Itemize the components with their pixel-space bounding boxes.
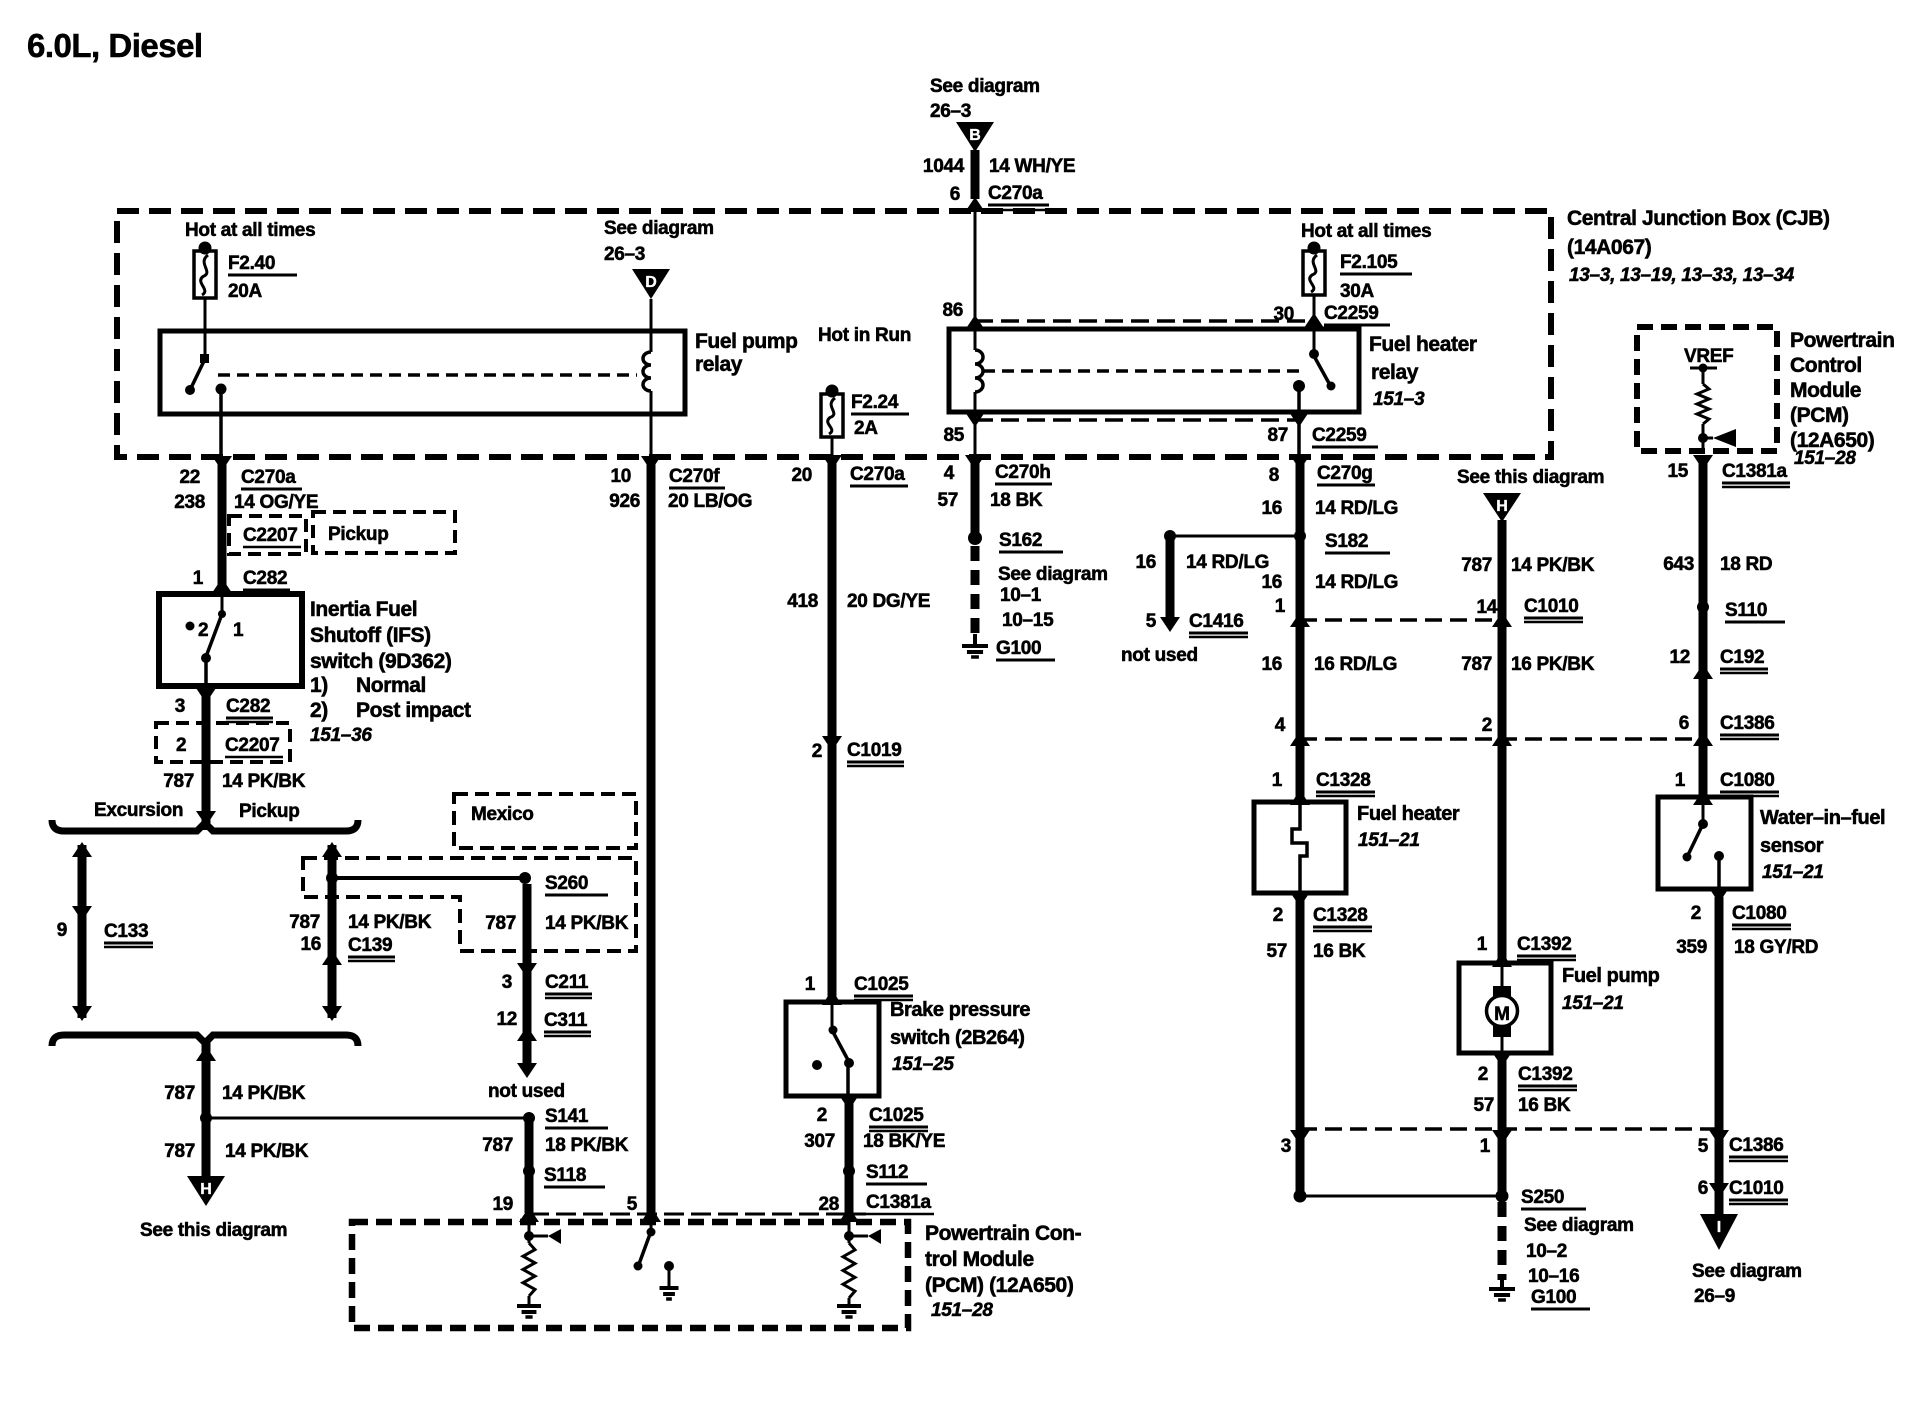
- svg-text:16: 16: [1261, 498, 1282, 519]
- sensor switch pivot: [1698, 819, 1708, 829]
- wire 926 20 LB/OG down to PCM pin 5: [647, 457, 656, 1213]
- svg-text:See diagram: See diagram: [998, 564, 1108, 585]
- svg-text:C270f: C270f: [669, 466, 720, 487]
- svg-text:6: 6: [1698, 1178, 1708, 1199]
- svg-text:20: 20: [791, 465, 812, 486]
- svg-text:1: 1: [1675, 770, 1686, 791]
- wire fuse F2.24 to C270a pin 20: [831, 437, 834, 457]
- svg-text:C1392: C1392: [1518, 1064, 1573, 1085]
- svg-text:C270a: C270a: [988, 183, 1043, 204]
- svg-text:10–15: 10–15: [1002, 610, 1054, 631]
- splice S250: [1496, 1190, 1509, 1203]
- svg-text:C1025: C1025: [854, 974, 909, 995]
- Mexico option dashed boundary (S260 region): [303, 858, 636, 951]
- PCM internal ground (pin 19): [517, 1304, 541, 1308]
- Inertia Fuel Shutoff (IFS) switch box: [159, 594, 302, 686]
- node VREF: [1699, 364, 1708, 373]
- svg-text:2): 2): [310, 699, 328, 722]
- svg-text:F2.40: F2.40: [228, 253, 275, 274]
- svg-text:not used: not used: [1121, 645, 1198, 666]
- split bracket (top) Excursion/Pickup: [52, 820, 358, 831]
- connector C2259 dashed line (lower): [975, 418, 1299, 422]
- svg-text:151–28: 151–28: [1794, 448, 1856, 469]
- svg-text:238: 238: [174, 492, 205, 513]
- svg-text:C211: C211: [545, 972, 589, 993]
- fuel pump output stub: [1501, 1037, 1504, 1053]
- PCM internal resistor (pin 19): [523, 1243, 535, 1296]
- svg-text:S250: S250: [1521, 1187, 1564, 1208]
- svg-text:C1392: C1392: [1517, 934, 1572, 955]
- brake switch input stub: [831, 1002, 834, 1026]
- wire Excursion branch (C133): [78, 845, 87, 1018]
- PCM input comparator arrow (pin 28): [868, 1229, 881, 1244]
- junction to splice S250: [1294, 1190, 1307, 1203]
- wire 787 14 PK/BK from H to fuel pump: [1498, 520, 1507, 963]
- svg-text:57: 57: [1266, 941, 1287, 962]
- svg-text:trol Module: trol Module: [925, 1248, 1034, 1271]
- svg-text:2: 2: [198, 620, 208, 641]
- split bracket (bottom): [52, 1035, 358, 1046]
- svg-text:2: 2: [1478, 1064, 1488, 1085]
- svg-text:C1080: C1080: [1732, 903, 1787, 924]
- fuel pump input stub: [1501, 963, 1504, 988]
- node PCM sense: [1698, 433, 1708, 443]
- splice S141: [523, 1112, 535, 1124]
- fuel pump box: [1459, 963, 1551, 1053]
- wire S250 to ground G100 (shown dashed): [1498, 1202, 1507, 1280]
- svg-text:S260: S260: [545, 873, 588, 894]
- svg-text:1: 1: [233, 620, 244, 641]
- svg-text:787: 787: [1461, 555, 1492, 576]
- ground G100 (S162): [962, 644, 988, 648]
- arrow C1010 crossing (left): [1290, 612, 1310, 627]
- svg-text:C1010: C1010: [1524, 596, 1579, 617]
- svg-text:16: 16: [1261, 572, 1282, 593]
- wire 307 18 BK/YE to PCM pin 28: [845, 1101, 854, 1213]
- svg-text:57: 57: [937, 490, 958, 511]
- wire B feed to heater relay coil (pin 86): [974, 211, 977, 350]
- svg-text:16 BK: 16 BK: [1518, 1095, 1571, 1116]
- wire 359 18 GY/RD down to I: [1715, 897, 1724, 1214]
- svg-text:sensor: sensor: [1760, 835, 1824, 857]
- wire heater ground to S250: [1300, 1195, 1502, 1198]
- svg-text:C139: C139: [348, 935, 392, 956]
- wire 57 18 BK to splice S162: [971, 457, 980, 540]
- svg-text:Fuel pump: Fuel pump: [695, 330, 798, 353]
- wire tap to splice S141: [206, 1117, 525, 1120]
- arrow pin 2 C1328 out of fuel heater: [1290, 892, 1310, 907]
- svg-text:151–21: 151–21: [1762, 862, 1824, 883]
- sensor switch lever (open): [1688, 826, 1702, 855]
- svg-text:86: 86: [942, 300, 963, 321]
- PCM internal ground (pin 5): [660, 1286, 679, 1290]
- wire relay output down inside CJB: [219, 389, 223, 457]
- IFS switch lever (normal position): [207, 614, 222, 654]
- pin 4 C270h exit: [965, 455, 985, 470]
- svg-text:Water–in–fuel: Water–in–fuel: [1760, 807, 1885, 829]
- off-page connector triangle H: [1483, 493, 1521, 522]
- svg-text:18 RD: 18 RD: [1720, 554, 1772, 575]
- svg-text:1: 1: [1477, 934, 1488, 955]
- PCM input comparator arrow (pin 19): [548, 1229, 561, 1244]
- Central Junction Box (CJB) dashed boundary: [117, 211, 1551, 457]
- svg-text:C2259: C2259: [1324, 303, 1379, 324]
- svg-text:151–28: 151–28: [931, 1300, 993, 1321]
- relay internal dashed link: [218, 373, 637, 377]
- PCM pin 19 internal lead: [528, 1213, 531, 1243]
- splice S182: [1294, 530, 1306, 542]
- svg-text:14: 14: [1476, 597, 1497, 618]
- IFS pivot: [218, 610, 226, 618]
- svg-text:787: 787: [163, 771, 194, 792]
- off-page connector triangle B: [956, 122, 994, 152]
- svg-text:20A: 20A: [228, 281, 263, 302]
- svg-text:16 PK/BK: 16 PK/BK: [1511, 654, 1595, 675]
- svg-text:Fuel heater: Fuel heater: [1369, 333, 1477, 356]
- svg-text:C1386: C1386: [1720, 713, 1775, 734]
- arrow pin 2 C1025 out of brake switch: [839, 1095, 859, 1110]
- svg-text:6.0L, Diesel: 6.0L, Diesel: [27, 27, 203, 64]
- svg-text:Powertrain Con-: Powertrain Con-: [925, 1222, 1082, 1245]
- fuse F2.105 30A: [1308, 242, 1321, 255]
- pin 20 C270a exit: [822, 455, 842, 470]
- fuel heater element: [1292, 802, 1307, 893]
- svg-text:14 PK/BK: 14 PK/BK: [222, 771, 306, 792]
- svg-text:See this diagram: See this diagram: [1457, 467, 1604, 488]
- svg-text:926: 926: [609, 491, 640, 512]
- brake pressure switch box: [786, 1002, 879, 1096]
- wire S162 to ground G100 (shown dashed): [971, 546, 980, 634]
- svg-text:C2207: C2207: [225, 735, 280, 756]
- svg-text:I: I: [1717, 1219, 1721, 1236]
- svg-text:28: 28: [818, 1194, 839, 1215]
- PCM driver switch lever (open): [639, 1234, 650, 1264]
- svg-text:C1328: C1328: [1313, 905, 1368, 926]
- svg-text:C1386: C1386: [1729, 1135, 1784, 1156]
- PCM driver switch pivot: [647, 1228, 656, 1237]
- arrow C1386 crossing (heater gnd): [1290, 1130, 1310, 1145]
- svg-text:C270g: C270g: [1317, 463, 1373, 484]
- arrow pin 2 C1080 out of sensor: [1709, 888, 1729, 903]
- arrow pin 1 C1025 into brake switch: [822, 990, 842, 1005]
- svg-text:G100: G100: [1531, 1287, 1576, 1308]
- Mexico dashed box: [454, 794, 636, 848]
- svg-text:C1080: C1080: [1720, 770, 1775, 791]
- svg-text:18 GY/RD: 18 GY/RD: [1734, 937, 1818, 958]
- splice S118: [523, 1165, 535, 1177]
- svg-text:2A: 2A: [854, 418, 878, 439]
- arrow pin 85 out of relay: [965, 412, 985, 427]
- wire 418 20 DG/YE down to brake switch: [828, 457, 837, 1002]
- svg-text:6: 6: [950, 184, 960, 205]
- svg-text:8: 8: [1269, 465, 1279, 486]
- IFS contact 2 (post impact): [186, 622, 195, 631]
- node pin 28 sense: [844, 1231, 854, 1241]
- svg-text:C282: C282: [226, 696, 270, 717]
- svg-text:1: 1: [1272, 770, 1283, 791]
- wire 16 14 RD/LG down (fuel heater feed): [1296, 457, 1305, 802]
- svg-text:10–1: 10–1: [1000, 585, 1042, 606]
- wire from D triangle to coil: [650, 299, 653, 352]
- svg-text:Inertia Fuel: Inertia Fuel: [310, 598, 417, 621]
- wire 57 16 BK below fuel heater: [1296, 893, 1305, 1196]
- svg-text:57: 57: [1473, 1095, 1494, 1116]
- arrow pin 1 C282 into IFS: [212, 578, 232, 593]
- relay switch pivot contact: [1309, 349, 1319, 359]
- arrow C1010 crossing (right): [1492, 612, 1512, 627]
- svg-text:Control: Control: [1790, 354, 1862, 377]
- arrow pin 6 C1010 crossing: [1709, 1183, 1729, 1198]
- connector C2207 dashed box (pin 2): [156, 723, 290, 762]
- svg-text:5: 5: [1698, 1136, 1709, 1157]
- svg-text:VREF: VREF: [1684, 346, 1733, 367]
- IFS output stub: [204, 660, 208, 686]
- svg-text:See diagram: See diagram: [604, 218, 714, 239]
- fuel pump relay box: [160, 331, 685, 414]
- svg-text:Central Junction Box (CJB): Central Junction Box (CJB): [1567, 207, 1830, 230]
- svg-text:S182: S182: [1325, 531, 1368, 552]
- svg-text:10–2: 10–2: [1526, 1241, 1567, 1262]
- svg-text:relay: relay: [1371, 361, 1419, 384]
- svg-text:C2259: C2259: [1312, 425, 1367, 446]
- relay switch lever (open): [191, 361, 204, 388]
- svg-text:14 PK/BK: 14 PK/BK: [222, 1083, 306, 1104]
- arrow pin 1 C1392 into fuel pump: [1492, 952, 1512, 967]
- arrow connector C211: [517, 963, 537, 978]
- svg-text:Hot in Run: Hot in Run: [818, 325, 911, 346]
- svg-text:9: 9: [57, 920, 67, 941]
- svg-text:3: 3: [502, 972, 512, 993]
- relay switch lever (open): [1314, 356, 1330, 385]
- arrow pin 19 into PCM: [519, 1207, 539, 1222]
- connector C1386 dashed line (lower): [1300, 1127, 1719, 1131]
- water-in-fuel sensor box: [1658, 797, 1751, 889]
- svg-text:359: 359: [1676, 937, 1707, 958]
- svg-text:15: 15: [1667, 461, 1688, 482]
- PCM internal ground (pin 28): [837, 1304, 861, 1308]
- wire 787 14 PK/BK to H: [202, 1038, 211, 1178]
- svg-text:10–16: 10–16: [1528, 1266, 1579, 1287]
- pin 10 C270f exit: [641, 456, 661, 471]
- svg-text:1: 1: [193, 568, 204, 589]
- svg-text:5: 5: [1146, 611, 1157, 632]
- svg-text:787: 787: [1461, 654, 1492, 675]
- svg-text:2: 2: [817, 1105, 827, 1126]
- sensor output contact: [1714, 851, 1724, 861]
- svg-text:relay: relay: [695, 353, 743, 376]
- svg-text:16 BK: 16 BK: [1313, 941, 1366, 962]
- wire 643 18 RD from PCM pin 15 to sensor: [1699, 457, 1708, 797]
- svg-text:See diagram: See diagram: [930, 76, 1040, 97]
- svg-text:12: 12: [1669, 647, 1690, 668]
- off-page arrow H: [187, 1176, 225, 1206]
- sensor output stub: [1717, 858, 1721, 889]
- svg-text:F2.24: F2.24: [851, 392, 899, 413]
- fuel heater box: [1254, 802, 1346, 893]
- pin 8 C270g exit: [1290, 455, 1310, 470]
- arrow C1386 crossing (pump gnd): [1492, 1130, 1512, 1145]
- svg-text:C192: C192: [1720, 647, 1764, 668]
- relay output contact (pin 87): [1293, 380, 1305, 392]
- pin 15 C1381a exit: [1693, 455, 1713, 470]
- wire pin 87 down to C270g: [1297, 388, 1301, 457]
- splice S162: [968, 531, 982, 545]
- off-page connector triangle D: [632, 269, 670, 299]
- svg-text:C1328: C1328: [1316, 770, 1371, 791]
- svg-text:(PCM) (12A650): (PCM) (12A650): [925, 1274, 1073, 1297]
- relay output contact (pin 22 side): [216, 384, 227, 395]
- svg-text:1): 1): [310, 674, 328, 697]
- svg-text:G100: G100: [996, 638, 1041, 659]
- svg-text:Mexico: Mexico: [471, 804, 534, 825]
- relay switch fixed contact: [200, 354, 209, 363]
- svg-text:4: 4: [944, 463, 955, 484]
- svg-text:6: 6: [1679, 713, 1689, 734]
- off-page arrow I: [1700, 1214, 1738, 1250]
- svg-text:14 PK/BK: 14 PK/BK: [1511, 555, 1595, 576]
- svg-text:F2.105: F2.105: [1340, 252, 1398, 273]
- svg-text:S162: S162: [999, 530, 1042, 551]
- PCM sense tap: [1703, 437, 1713, 440]
- svg-text:14 OG/YE: 14 OG/YE: [234, 492, 318, 513]
- svg-text:C1381a: C1381a: [866, 1192, 931, 1213]
- svg-text:22: 22: [179, 467, 200, 488]
- arrow connector C133: [72, 906, 92, 921]
- svg-text:C1025: C1025: [869, 1105, 924, 1126]
- svg-text:87: 87: [1267, 425, 1288, 446]
- svg-text:14 PK/BK: 14 PK/BK: [348, 912, 432, 933]
- svg-text:C270h: C270h: [995, 462, 1051, 483]
- arrow connector C311: [517, 1026, 537, 1041]
- wire to splice S260: [336, 876, 521, 880]
- VREF rail: [1690, 367, 1717, 370]
- svg-text:See diagram: See diagram: [1524, 1215, 1634, 1236]
- svg-text:787: 787: [289, 912, 320, 933]
- svg-text:switch (2B264): switch (2B264): [890, 1027, 1024, 1049]
- svg-text:D: D: [645, 274, 657, 291]
- brake switch pivot: [829, 1026, 838, 1035]
- svg-text:4: 4: [1275, 715, 1286, 736]
- wire S182 tap to C1416: [1170, 535, 1300, 538]
- connector C1381a dashed line: [529, 1213, 866, 1216]
- PCM pin 5 internal lead: [650, 1213, 653, 1230]
- svg-text:16: 16: [1261, 654, 1282, 675]
- pin 22 C270a exit: [212, 456, 232, 471]
- svg-text:787: 787: [485, 913, 516, 934]
- svg-text:16: 16: [1135, 552, 1156, 573]
- IFS output contact: [201, 653, 211, 663]
- svg-text:151–21: 151–21: [1358, 830, 1420, 851]
- svg-text:Brake pressure: Brake pressure: [890, 999, 1030, 1021]
- Powertrain Control Module dashed box (bottom): [352, 1222, 908, 1328]
- arrow connector C192: [1693, 664, 1713, 679]
- svg-text:2: 2: [176, 735, 186, 756]
- svg-text:C1019: C1019: [847, 740, 902, 761]
- svg-text:18 BK/YE: 18 BK/YE: [863, 1131, 945, 1152]
- arrow connector C139: [322, 950, 342, 965]
- svg-text:2: 2: [812, 741, 822, 762]
- junction to S260: [326, 872, 338, 884]
- svg-text:13–3, 13–19, 13–33, 13–34: 13–3, 13–19, 13–33, 13–34: [1569, 265, 1795, 286]
- svg-text:M: M: [1494, 1004, 1510, 1025]
- svg-text:Hot at all times: Hot at all times: [185, 220, 315, 241]
- svg-text:Pickup: Pickup: [239, 801, 300, 822]
- svg-text:Hot at all times: Hot at all times: [1301, 221, 1431, 242]
- svg-text:See diagram: See diagram: [1692, 1261, 1802, 1282]
- sensor input stub: [1702, 797, 1705, 820]
- arrow pin 5 C1386 crossing: [1709, 1130, 1729, 1145]
- svg-text:S118: S118: [544, 1165, 586, 1186]
- relay internal dashed link: [983, 369, 1305, 373]
- svg-text:307: 307: [804, 1131, 835, 1152]
- svg-text:787: 787: [482, 1135, 513, 1156]
- svg-text:C2207: C2207: [243, 525, 298, 546]
- svg-text:14 RD/LG: 14 RD/LG: [1315, 572, 1398, 593]
- connector C2259 dashed line (upper): [975, 319, 1310, 323]
- svg-text:2: 2: [1482, 715, 1492, 736]
- splice S260: [519, 872, 531, 884]
- arrow pin 28 into PCM: [839, 1207, 859, 1222]
- arrow into CJB pin 6: [965, 197, 985, 212]
- svg-text:Fuel pump: Fuel pump: [1562, 965, 1660, 987]
- svg-text:S141: S141: [545, 1106, 589, 1127]
- svg-text:20 LB/OG: 20 LB/OG: [668, 491, 752, 512]
- PCM pin 28 internal lead: [848, 1213, 851, 1243]
- junction at S141 tap: [200, 1112, 212, 1124]
- svg-text:18 BK: 18 BK: [990, 490, 1043, 511]
- svg-text:Powertrain: Powertrain: [1790, 329, 1895, 352]
- PCM internal resistor (pin 28): [843, 1243, 855, 1298]
- wire 787 14 PK/BK below IFS: [202, 693, 211, 830]
- svg-text:S112: S112: [866, 1162, 908, 1183]
- Pickup dashed box: [313, 512, 455, 553]
- svg-text:30A: 30A: [1340, 281, 1375, 302]
- svg-text:16 RD/LG: 16 RD/LG: [1314, 654, 1397, 675]
- motor M: [1487, 996, 1518, 1027]
- svg-text:Module: Module: [1790, 379, 1861, 402]
- svg-text:85: 85: [943, 425, 964, 446]
- svg-text:12: 12: [496, 1009, 517, 1030]
- svg-text:14 PK/BK: 14 PK/BK: [225, 1141, 309, 1162]
- connector C1010 dashed line (upper): [1300, 618, 1502, 622]
- arrow pin 30 into relay: [1304, 313, 1324, 328]
- wire fuse F2.40 to relay switch: [204, 298, 207, 357]
- svg-text:151–21: 151–21: [1562, 993, 1624, 1014]
- svg-text:(PCM): (PCM): [1790, 404, 1849, 427]
- fuse F2.40 20A: [199, 242, 212, 255]
- svg-text:20 DG/YE: 20 DG/YE: [847, 591, 930, 612]
- splice S112: [843, 1165, 855, 1177]
- svg-text:16: 16: [300, 934, 321, 955]
- IFS input stub: [221, 594, 224, 612]
- relay switch lower contact: [185, 385, 195, 395]
- svg-text:3: 3: [175, 696, 185, 717]
- wire coil pin 85 down to C270h: [974, 392, 977, 457]
- arrow pin 5 into PCM: [641, 1207, 661, 1222]
- svg-text:26–3: 26–3: [604, 244, 645, 265]
- arrow pin 2 C1392 out of fuel pump: [1492, 1052, 1512, 1067]
- svg-text:C311: C311: [544, 1010, 588, 1031]
- svg-text:C282: C282: [243, 568, 287, 589]
- svg-text:C1381a: C1381a: [1722, 461, 1787, 482]
- svg-text:C1416: C1416: [1189, 611, 1244, 632]
- arrow connector C1019: [822, 736, 842, 751]
- svg-text:19: 19: [492, 1194, 513, 1215]
- svg-text:1: 1: [805, 974, 816, 995]
- svg-text:C270a: C270a: [241, 467, 296, 488]
- svg-text:14 RD/LG: 14 RD/LG: [1315, 498, 1398, 519]
- svg-text:C133: C133: [104, 921, 148, 942]
